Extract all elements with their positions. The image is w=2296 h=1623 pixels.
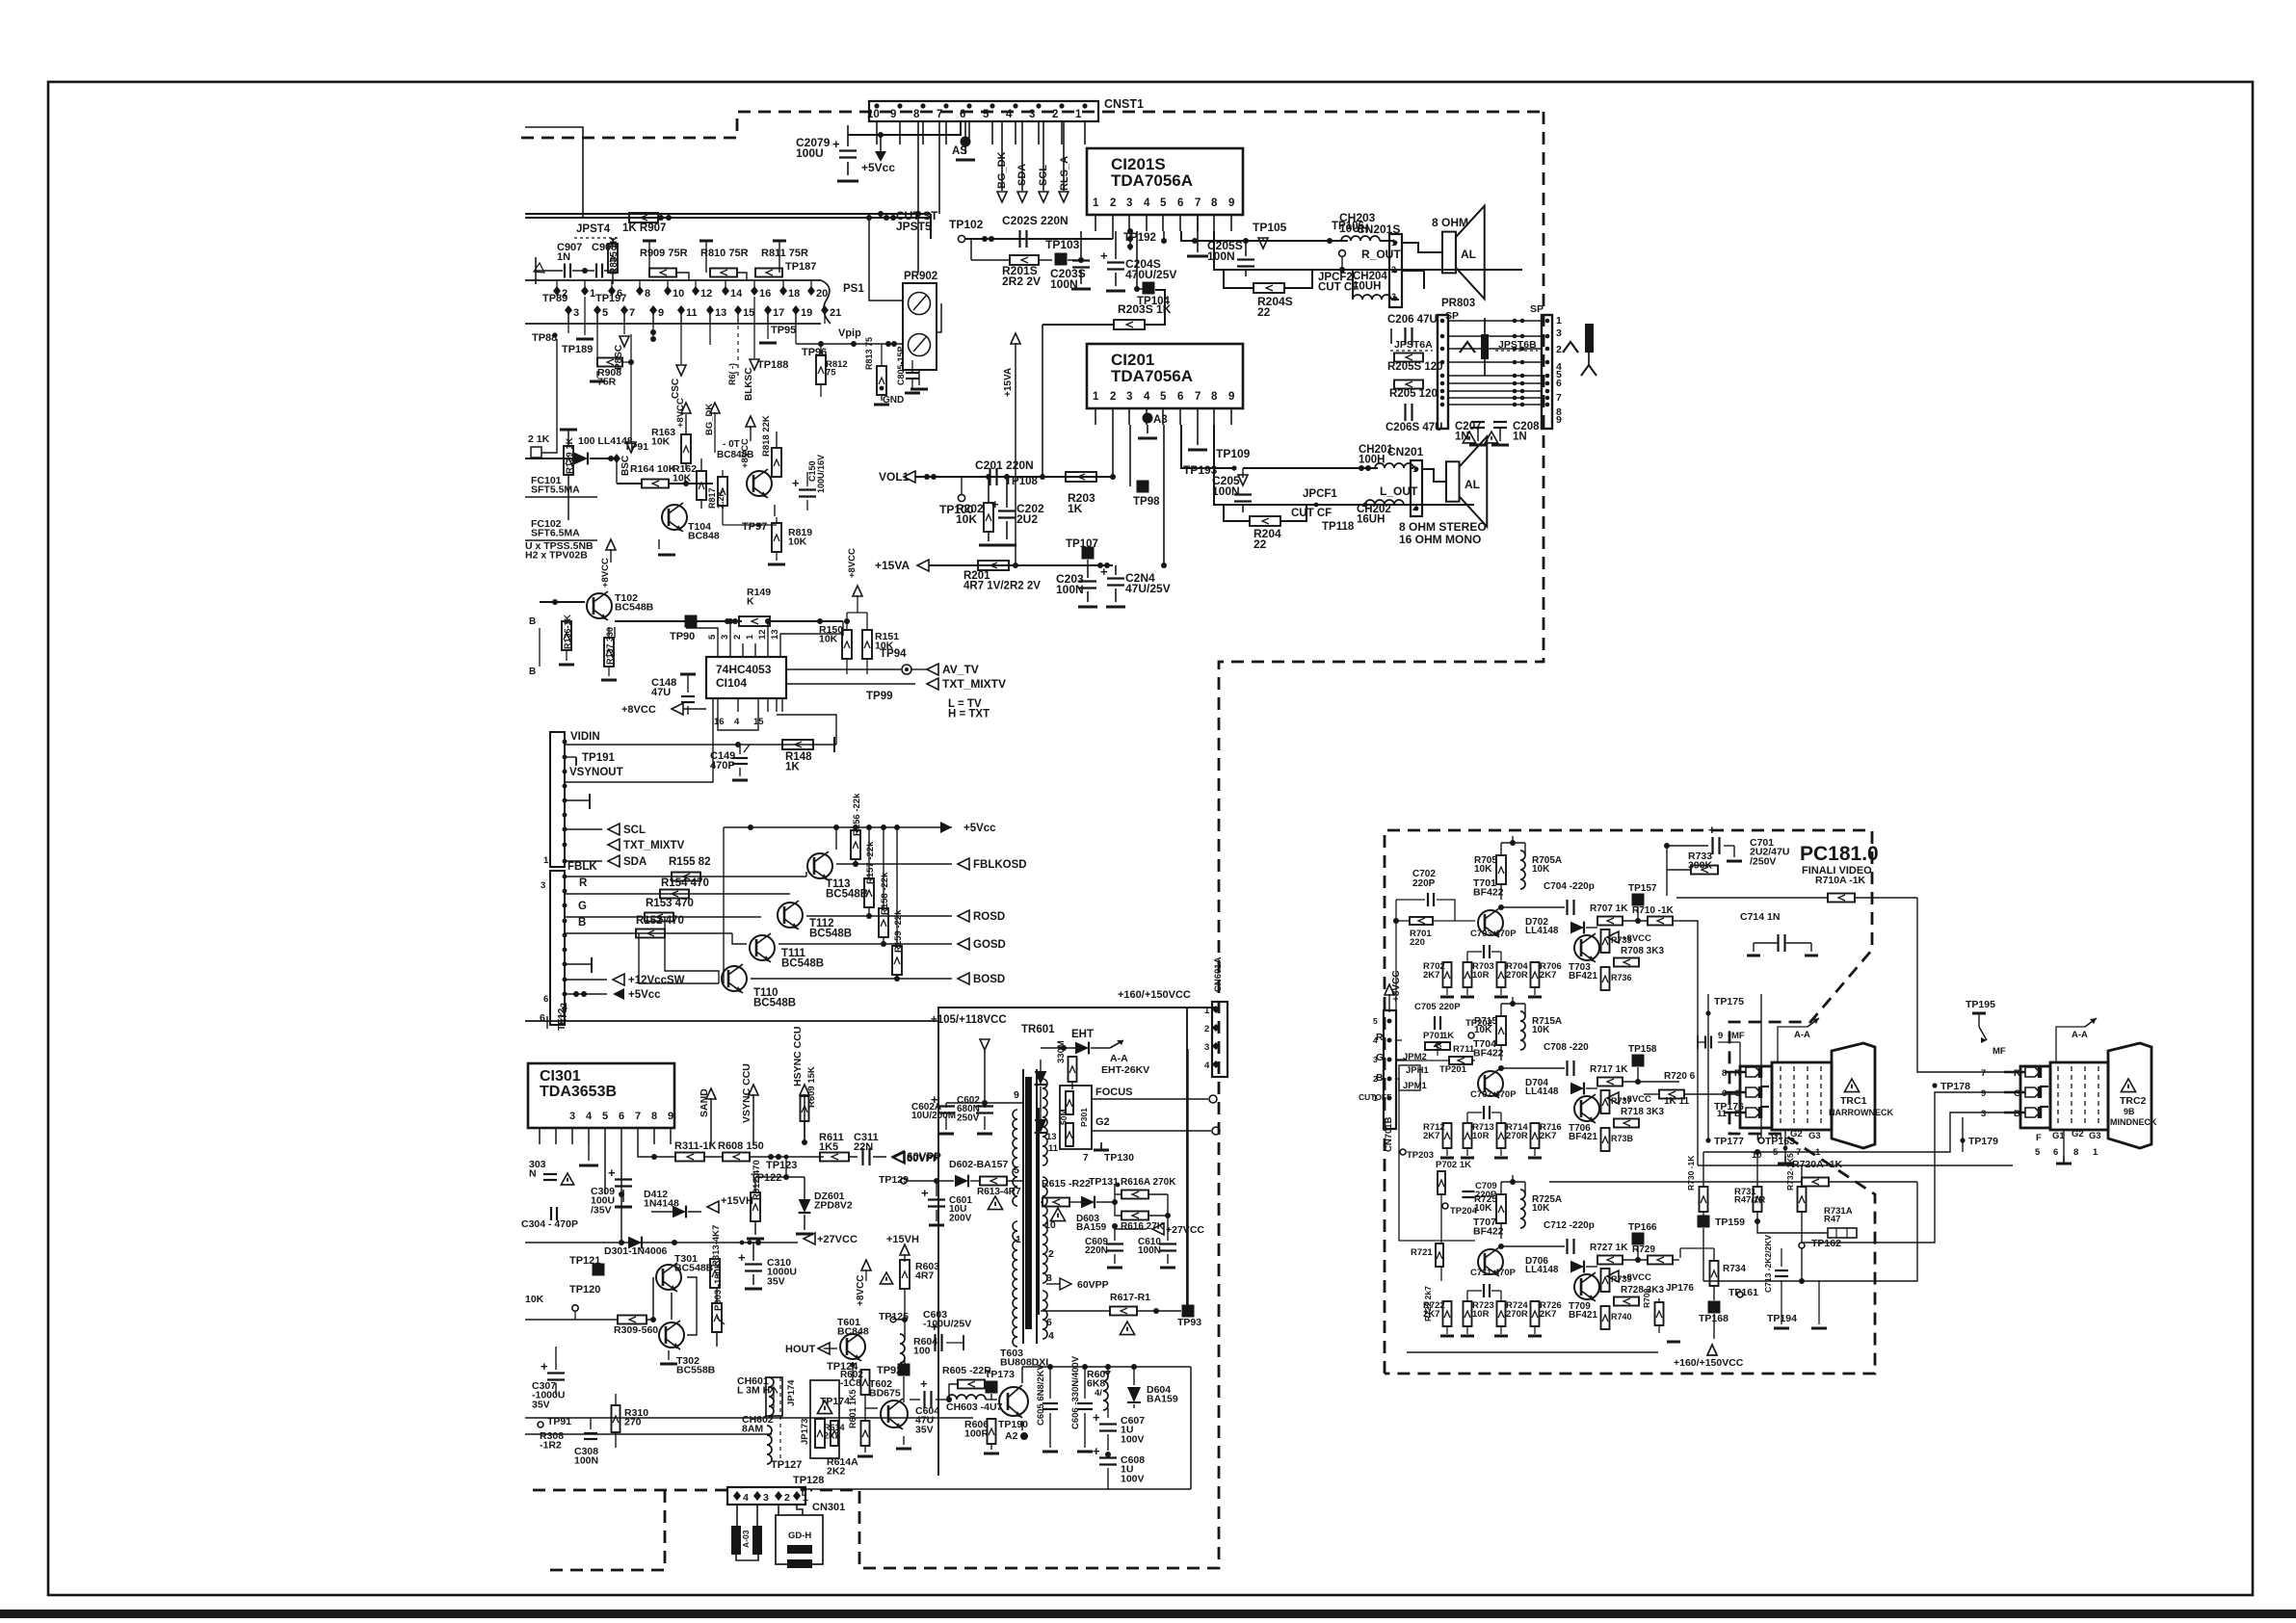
svg-text:470P: 470P	[710, 760, 735, 772]
svg-text:BF422: BF422	[1473, 887, 1504, 899]
svg-text:R615 -R22: R615 -R22	[1042, 1178, 1091, 1190]
wire R617 R1 row	[1038, 1310, 1098, 1312]
svg-text:A-A: A-A	[1110, 1053, 1128, 1064]
wire T302 collector	[687, 1277, 697, 1335]
svg-text:TP89: TP89	[542, 293, 567, 304]
connector CN301	[727, 1487, 805, 1505]
diode D604 BA159	[1127, 1387, 1141, 1402]
svg-text:3: 3	[1981, 1109, 1986, 1119]
svg-text:7: 7	[635, 1111, 641, 1122]
svg-text:10K: 10K	[1532, 864, 1550, 875]
resistor R813 75	[877, 366, 886, 395]
flag +5Vcc lower	[565, 993, 607, 995]
pin13 stub	[709, 310, 711, 345]
svg-text:R707 1K: R707 1K	[1590, 903, 1628, 914]
svg-text:35V: 35V	[532, 1399, 550, 1410]
CN601A pins	[1212, 1006, 1220, 1013]
gnd CN601A pin4	[1195, 1064, 1212, 1077]
pin1 stub TP189	[584, 297, 586, 335]
test point TP100	[958, 494, 964, 501]
svg-text:C708 -220: C708 -220	[1544, 1042, 1589, 1053]
svg-text:CH603 -4U7: CH603 -4U7	[946, 1401, 1003, 1413]
capacitor C150 100U/16V	[799, 488, 816, 490]
resistor R819 10K	[772, 523, 781, 552]
svg-text:+: +	[1708, 823, 1716, 837]
svg-text:SDA: SDA	[623, 856, 647, 868]
wire T602 base feed	[903, 1382, 905, 1408]
flag +27VCC right	[1152, 1223, 1164, 1235]
svg-text:TP201: TP201	[1439, 1064, 1467, 1075]
TRC1 labels	[1844, 1079, 1859, 1092]
svg-text:+5Vcc: +5Vcc	[628, 989, 661, 1001]
svg-text:C712 -220p: C712 -220p	[1544, 1220, 1595, 1231]
svg-text:R203S 1K: R203S 1K	[1118, 302, 1172, 316]
wire eht-left column	[937, 1061, 939, 1476]
svg-text:R734: R734	[1723, 1264, 1746, 1274]
wire rows to CN301 area	[525, 1393, 616, 1395]
svg-text:D301-1N4006: D301-1N4006	[604, 1245, 668, 1257]
svg-text:2: 2	[1556, 344, 1562, 355]
supply +15VA column	[1011, 333, 1020, 344]
TRC1 cathode wires	[1725, 1071, 1746, 1073]
video amp stage R: T701 BF422 / T703 BF421	[1478, 910, 1503, 935]
flag +12VccSW	[565, 979, 607, 981]
capacitor C202 2U2	[998, 510, 1016, 511]
CI104 pins	[717, 643, 719, 657]
svg-text:R720 6: R720 6	[1664, 1071, 1696, 1082]
svg-text:10K: 10K	[1474, 864, 1492, 875]
svg-text:+: +	[921, 1186, 929, 1200]
svg-text:47U/25V: 47U/25V	[1125, 582, 1171, 595]
svg-text:6: 6	[960, 109, 965, 120]
svg-text:8: 8	[1211, 391, 1218, 403]
svg-text:220N: 220N	[1085, 1245, 1108, 1256]
resistor R885 1K	[608, 244, 618, 273]
resistor R136-1K	[562, 621, 571, 650]
svg-text:EHT-26KV: EHT-26KV	[1101, 1064, 1149, 1076]
wire pin8 down	[917, 121, 919, 273]
capacitor C602 680N 250V	[976, 1105, 993, 1107]
svg-text:TP173: TP173	[985, 1369, 1015, 1380]
svg-text:R735: R735	[1611, 935, 1632, 945]
svg-text:R909 75R: R909 75R	[640, 248, 688, 259]
svg-text:TP177: TP177	[1714, 1136, 1744, 1147]
T113 emitter gnd	[819, 882, 821, 894]
resistor R603 4R7	[900, 1260, 910, 1289]
svg-text:6: 6	[619, 1111, 624, 1122]
video amp stage B: T707 BF422 / T709 BF421	[1478, 1249, 1503, 1274]
svg-text:+5Vcc: +5Vcc	[963, 823, 996, 834]
svg-text:100N: 100N	[1138, 1245, 1161, 1256]
pin9 stub	[652, 310, 654, 339]
svg-text:R617-R1: R617-R1	[1110, 1292, 1150, 1303]
wire y222 branch down x966	[930, 214, 932, 239]
svg-text:4/: 4/	[1095, 1388, 1102, 1399]
svg-text:C705 220P: C705 220P	[1414, 1002, 1461, 1012]
svg-text:1K5: 1K5	[819, 1141, 838, 1153]
label BG_DK col	[710, 403, 720, 413]
svg-text:FBLK: FBLK	[567, 861, 597, 873]
svg-text:2: 2	[1052, 109, 1058, 120]
svg-text:R717 1K: R717 1K	[1590, 1064, 1628, 1075]
supply +8VCC CN701B	[1385, 984, 1394, 995]
resistor R158 22k	[879, 908, 888, 937]
svg-text:60VPP: 60VPP	[1077, 1279, 1109, 1291]
board connector pin row upper	[553, 286, 561, 296]
capacitor C2079 100U	[847, 125, 849, 146]
svg-text:JPST4: JPST4	[576, 223, 611, 235]
wire long row 1358	[525, 1307, 575, 1309]
capacitor C310 1000U 35V	[745, 1263, 762, 1265]
wire to CH203	[1255, 240, 1348, 242]
svg-text:JPST6B: JPST6B	[1498, 339, 1537, 351]
TRC1 A-A arrow	[1808, 1018, 1819, 1027]
svg-text:+15VA: +15VA	[875, 559, 910, 572]
svg-text:G1: G1	[1771, 1131, 1783, 1141]
wire top bus eht bottom	[1022, 1366, 1191, 1368]
svg-text:TP91: TP91	[624, 441, 648, 453]
wire CN301 row links	[736, 1434, 738, 1496]
flag 60VPP left	[893, 1152, 905, 1164]
svg-text:100U/16V: 100U/16V	[816, 455, 826, 493]
svg-text:+27VCC: +27VCC	[817, 1234, 858, 1245]
svg-text:R709: R709	[1642, 1288, 1651, 1308]
svg-text:R609 15K: R609 15K	[806, 1066, 817, 1108]
svg-text:1: 1	[2093, 1147, 2098, 1158]
svg-text:9: 9	[1014, 1089, 1019, 1101]
svg-text:BC848: BC848	[688, 531, 720, 542]
op-amp IC CI201 TDA7056A	[1087, 344, 1243, 408]
svg-text:SFT6.5MA: SFT6.5MA	[531, 528, 580, 539]
svg-text:PS1: PS1	[843, 283, 864, 295]
svg-text:BF421: BF421	[1569, 971, 1597, 982]
svg-text:10K: 10K	[956, 512, 977, 526]
svg-text:GD-H: GD-H	[788, 1531, 811, 1541]
svg-text:TP95: TP95	[771, 325, 796, 336]
svg-text:BA159: BA159	[1147, 1394, 1178, 1405]
svg-text:R312-470: R312-470	[752, 1160, 762, 1200]
svg-text:5: 5	[1014, 1165, 1019, 1176]
capacitor C309 100U/35V	[615, 1178, 632, 1180]
svg-text:6: 6	[1177, 197, 1183, 209]
TRC2 F wire	[2034, 1130, 2036, 1152]
svg-text:BF421: BF421	[1569, 1132, 1597, 1142]
svg-text:TDA3653B: TDA3653B	[540, 1084, 617, 1100]
node AS1	[961, 137, 971, 147]
zener DZ601 ZPD8V2	[799, 1199, 811, 1213]
svg-text:9: 9	[1228, 197, 1234, 209]
flyback TR601 windings	[1025, 1077, 1032, 1329]
svg-text:17: 17	[773, 307, 784, 319]
svg-text:18: 18	[788, 288, 800, 300]
resistor R204 22	[1224, 505, 1250, 521]
svg-text:TRC1: TRC1	[1840, 1095, 1867, 1107]
svg-text:R154 470: R154 470	[661, 877, 709, 889]
svg-text:1K: 1K	[1068, 502, 1083, 515]
arrow P8SC	[623, 310, 625, 334]
svg-text:SDA: SDA	[1016, 164, 1028, 186]
svg-text:RLS_A: RLS_A	[1059, 156, 1070, 191]
svg-text:R739: R739	[1611, 1274, 1632, 1284]
test point TP107	[1082, 547, 1095, 560]
svg-text:11: 11	[1717, 1109, 1728, 1119]
wire CI104 to AV_TV	[786, 668, 901, 670]
svg-text:6: 6	[540, 1012, 545, 1024]
svg-text:+8VCC: +8VCC	[740, 438, 751, 468]
svg-text:100V: 100V	[1121, 1473, 1145, 1484]
svg-text:C703 470P: C703 470P	[1470, 929, 1517, 939]
svg-text:TP108: TP108	[1005, 476, 1038, 487]
svg-text:2 1K: 2 1K	[528, 433, 550, 445]
svg-text:+: +	[1093, 1444, 1100, 1458]
svg-text:9: 9	[658, 307, 664, 319]
arrow SAND	[710, 1098, 712, 1144]
svg-text:R613-4R7: R613-4R7	[977, 1187, 1021, 1197]
svg-text:1N: 1N	[557, 251, 570, 263]
svg-text:R722 2k7: R722 2k7	[1423, 1286, 1433, 1322]
svg-text:250V: 250V	[957, 1113, 980, 1123]
svg-text:16UH: 16UH	[1357, 514, 1385, 526]
svg-text:BC548B: BC548B	[753, 998, 796, 1009]
svg-text:19: 19	[801, 307, 812, 319]
svg-text:+8VCC: +8VCC	[856, 1274, 866, 1306]
svg-text:TP197: TP197	[595, 293, 626, 304]
wire +5Vcc bus	[724, 826, 952, 828]
svg-text:+: +	[541, 1359, 548, 1374]
svg-text:TP130: TP130	[1104, 1152, 1134, 1164]
svg-text:C707 470P: C707 470P	[1470, 1089, 1517, 1100]
svg-text:G2: G2	[2072, 1129, 2084, 1139]
svg-text:BG_DK: BG_DK	[704, 404, 715, 435]
svg-text:GOSD: GOSD	[973, 939, 1006, 951]
node A3 on pin4	[1143, 413, 1153, 424]
svg-text:TP123: TP123	[766, 1160, 797, 1171]
svg-text:NARROWNECK: NARROWNECK	[1829, 1108, 1893, 1117]
resistor R159 22k	[892, 946, 902, 975]
jack chevron right	[1563, 342, 1578, 353]
flag TXT_MIXTV right	[927, 678, 938, 690]
svg-text:MINDNECK: MINDNECK	[2110, 1117, 2157, 1127]
svg-text:2R2 2V: 2R2 2V	[1002, 275, 1041, 288]
wire CI201 pin3 down	[1129, 425, 1131, 486]
svg-text:C711 470P: C711 470P	[1470, 1268, 1517, 1278]
svg-text:7: 7	[1981, 1068, 1986, 1079]
resistor R604 100	[900, 1334, 905, 1363]
TRC1 G1 gnd	[1784, 1130, 1786, 1156]
svg-text:R205S 120: R205S 120	[1387, 361, 1443, 373]
svg-text:R729: R729	[1632, 1244, 1655, 1255]
resistor R313-4K7	[710, 1259, 720, 1288]
svg-text:R810 75R: R810 75R	[700, 248, 749, 259]
svg-text:10: 10	[673, 288, 684, 300]
resistor R156 22k	[851, 830, 860, 859]
svg-text:R309-560: R309-560	[614, 1324, 658, 1336]
svg-text:TP190: TP190	[998, 1419, 1028, 1430]
svg-text:+: +	[792, 476, 800, 490]
svg-text:BC548B: BC548B	[826, 889, 868, 901]
svg-text:9B: 9B	[2124, 1107, 2135, 1116]
svg-text:JPST6A: JPST6A	[1394, 339, 1433, 351]
svg-text:R736: R736	[1611, 973, 1632, 982]
flag +15VH mid	[707, 1201, 719, 1213]
svg-text:CN201S: CN201S	[1357, 223, 1400, 236]
svg-text:6: 6	[2053, 1147, 2058, 1158]
TRC2 A-A arrow	[2085, 1018, 2097, 1027]
CRT socket TRC1 cathode box	[1740, 1066, 1772, 1128]
svg-text:CN201: CN201	[1387, 445, 1424, 458]
wire Vpip row	[796, 343, 903, 345]
TRC1 MF cap	[1704, 1036, 1706, 1049]
resistor R203 1K	[1066, 472, 1096, 482]
capacitor C307-1000U 35V	[547, 1372, 565, 1374]
supply +15VH arrow	[900, 1244, 910, 1255]
svg-text:9: 9	[1228, 391, 1234, 403]
wire G2 out	[1092, 1130, 1211, 1132]
svg-text:1: 1	[1093, 391, 1099, 403]
svg-text:3: 3	[541, 880, 545, 891]
svg-text:B: B	[529, 616, 536, 627]
flag 60VPP right	[1046, 1283, 1060, 1285]
svg-text:AV_TV: AV_TV	[942, 663, 979, 676]
svg-text:LL4148: LL4148	[1525, 926, 1559, 936]
svg-text:TP127: TP127	[771, 1459, 802, 1471]
pot P702 wires	[1440, 1194, 1442, 1243]
wires pc181 interconnect right	[1917, 898, 2004, 1072]
resistor R609 15K	[801, 1096, 809, 1121]
wire CI201 pin6 to TP109 line	[1181, 425, 1234, 468]
transistor T102 BC548B	[587, 593, 612, 618]
test point TP92	[898, 1364, 910, 1376]
wire pin8 down L_OUT	[1214, 425, 1474, 505]
svg-text:TP195: TP195	[1966, 999, 1995, 1010]
svg-text:TP194: TP194	[1767, 1313, 1797, 1324]
svg-text:5: 5	[707, 634, 718, 640]
svg-text:75: 75	[826, 368, 836, 379]
svg-text:100N: 100N	[574, 1455, 598, 1467]
capacitor C2N4 47U/25V	[1107, 577, 1124, 579]
svg-text:TP98: TP98	[1133, 496, 1160, 508]
svg-text:TP179: TP179	[1968, 1136, 1998, 1147]
svg-text:R813 75: R813 75	[864, 337, 874, 370]
test point TP121	[593, 1264, 605, 1276]
svg-text:R818 22K: R818 22K	[761, 415, 772, 457]
svg-text:4R7 1V/2R2 2V: 4R7 1V/2R2 2V	[963, 581, 1041, 592]
svg-text:5: 5	[602, 1111, 608, 1122]
wire ROSD	[806, 915, 952, 917]
svg-text:BC548B: BC548B	[674, 1263, 714, 1274]
arrow BLKSC	[753, 297, 755, 358]
svg-text:P301: P301	[1079, 1108, 1089, 1127]
speaker AL right channel	[1442, 232, 1456, 274]
svg-text:TP159: TP159	[1715, 1217, 1745, 1228]
connector CN201	[1411, 460, 1422, 516]
svg-text:TP128: TP128	[793, 1475, 824, 1486]
svg-text:3: 3	[1556, 327, 1562, 339]
svg-text:CI301: CI301	[540, 1068, 581, 1085]
svg-text:11: 11	[686, 307, 698, 319]
svg-text:3: 3	[1126, 391, 1132, 403]
svg-text:+105/+118VCC: +105/+118VCC	[931, 1014, 1007, 1026]
svg-text:35V: 35V	[767, 1275, 785, 1287]
svg-text:R155 82: R155 82	[669, 856, 710, 868]
svg-text:47U: 47U	[651, 687, 671, 698]
svg-text:TP174: TP174	[820, 1396, 850, 1407]
svg-text:10K: 10K	[673, 473, 692, 484]
svg-text:A2: A2	[1005, 1430, 1018, 1442]
svg-text:10K: 10K	[788, 537, 807, 548]
resistor R908 75R	[596, 310, 598, 362]
resistor R202 10K	[984, 503, 993, 532]
svg-text:1: 1	[543, 855, 549, 866]
svg-text:TDA7056A: TDA7056A	[1111, 171, 1193, 190]
svg-text:1: 1	[1556, 315, 1562, 327]
transistor T112 BC548B	[778, 903, 803, 928]
svg-text:100V: 100V	[1121, 1433, 1145, 1445]
supply +160/+150VCC pc181	[1707, 1345, 1717, 1355]
focus pot P301	[1060, 1086, 1092, 1149]
TRC2 bell	[2108, 1043, 2151, 1148]
inductor CH202 16UH	[1365, 500, 1404, 505]
svg-text:BC548B: BC548B	[809, 929, 852, 940]
resistor R606 100R	[988, 1419, 996, 1444]
svg-text:R158 -22k: R158 -22k	[880, 872, 890, 915]
svg-text:B: B	[2014, 1109, 2020, 1119]
wire y486 to CH201	[1243, 467, 1378, 469]
pin19 stub	[795, 310, 797, 344]
svg-text:JPH1: JPH1	[1406, 1065, 1429, 1076]
wire bus lower y336	[525, 323, 821, 325]
wire row under TRC1	[1698, 1165, 2013, 1166]
svg-text:G2: G2	[1095, 1116, 1110, 1128]
TRC1 pin chevrons RGB	[1746, 1067, 1760, 1077]
svg-text:EHT: EHT	[1071, 1029, 1094, 1040]
bottom scan strip	[0, 1610, 2296, 1618]
wire CI201S pin6 out	[1181, 231, 1255, 241]
transistor T601 BC848 hout	[840, 1334, 865, 1359]
transistor T104 BC848	[662, 505, 687, 530]
svg-text:7: 7	[937, 109, 942, 120]
svg-text:- 0T: - 0T	[723, 439, 740, 450]
svg-text:P303 -100K: P303 -100K	[713, 1262, 724, 1311]
svg-text:13: 13	[770, 629, 780, 640]
svg-text:8: 8	[1722, 1068, 1727, 1079]
wire CI201S pin5 down	[1163, 231, 1165, 241]
diodes in flyback stack	[1035, 1071, 1047, 1085]
svg-text:220P: 220P	[1412, 878, 1436, 889]
arrow VSYNC CCU	[752, 1098, 754, 1157]
wire pin7 down to R311	[638, 1144, 674, 1157]
svg-text:+12VccSW: +12VccSW	[628, 975, 685, 986]
svg-text:R608 150: R608 150	[718, 1140, 764, 1152]
wire +15VA junction	[1013, 563, 1018, 568]
svg-text:TP94: TP94	[880, 648, 907, 660]
svg-text:100: 100	[913, 1346, 931, 1357]
resistor R150 10K	[842, 630, 852, 659]
wire left col small	[639, 933, 719, 983]
svg-text:1K: 1K	[1442, 1031, 1454, 1041]
arrow HSYNC CCU	[804, 1094, 805, 1142]
resistor R616 27K	[1122, 1212, 1148, 1220]
capacitor C701 2U2/47U/250V	[1711, 837, 1713, 854]
svg-text:3: 3	[1126, 197, 1132, 209]
svg-text:R727 1K: R727 1K	[1590, 1243, 1628, 1253]
svg-text:Vpip: Vpip	[838, 327, 861, 339]
connector SP right	[1542, 315, 1552, 429]
svg-text:C206S 47U: C206S 47U	[1386, 422, 1442, 433]
svg-text:270R: 270R	[1506, 970, 1528, 981]
CNST1 pins 10..1	[874, 103, 879, 108]
wire CN701B R to stage1	[1396, 921, 1409, 1040]
